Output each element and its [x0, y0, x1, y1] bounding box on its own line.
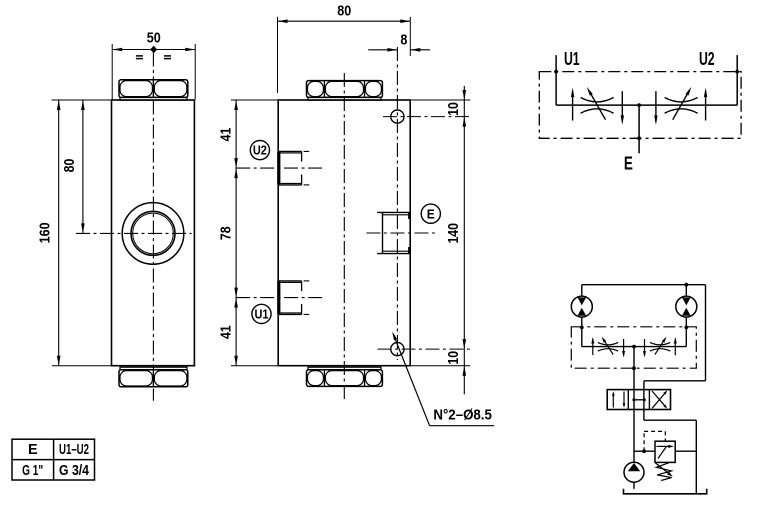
svg-text:50: 50	[147, 30, 161, 47]
svg-text:U2: U2	[699, 49, 715, 69]
svg-text:78: 78	[218, 226, 235, 240]
svg-text:G 3/4: G 3/4	[59, 463, 89, 479]
svg-text:80: 80	[337, 3, 351, 20]
svg-text:U1: U1	[564, 49, 580, 69]
svg-text:80: 80	[61, 159, 78, 173]
svg-text:U2: U2	[253, 143, 267, 158]
svg-text:41: 41	[218, 128, 235, 142]
svg-text:8: 8	[400, 31, 407, 48]
svg-text:U1–U2: U1–U2	[59, 442, 89, 458]
svg-text:10: 10	[445, 102, 462, 116]
svg-text:41: 41	[218, 325, 235, 339]
svg-text:140: 140	[445, 223, 462, 244]
svg-text:U1: U1	[255, 307, 269, 322]
svg-text:E: E	[28, 442, 38, 458]
svg-text:E: E	[624, 154, 633, 174]
svg-text:160: 160	[37, 222, 54, 243]
svg-text:G 1": G 1"	[22, 463, 43, 479]
svg-text:10: 10	[445, 351, 462, 365]
svg-text:E: E	[427, 206, 435, 221]
svg-text:N°2–Ø8.5: N°2–Ø8.5	[433, 407, 492, 424]
